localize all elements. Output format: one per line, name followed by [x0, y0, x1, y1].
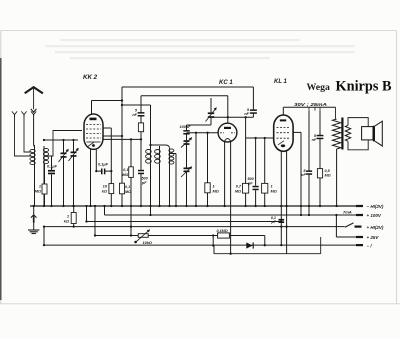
svg-text:0,1: 0,1: [123, 168, 128, 172]
svg-text:0,7: 0,7: [236, 185, 242, 189]
svg-text:MΩ: MΩ: [325, 174, 331, 178]
svg-text:MΩ: MΩ: [125, 190, 131, 194]
svg-text:nF: nF: [301, 173, 306, 177]
svg-text:μF: μF: [271, 220, 277, 224]
svg-text:− /: − /: [367, 243, 373, 248]
svg-text:0,1MΩ: 0,1MΩ: [217, 229, 228, 233]
svg-text:Knirps B: Knirps B: [336, 77, 392, 94]
svg-text:Wega: Wega: [307, 82, 331, 93]
svg-text:KK 2: KK 2: [83, 74, 98, 81]
svg-text:100pF: 100pF: [180, 125, 192, 129]
svg-text:7mA: 7mA: [343, 210, 352, 215]
svg-text:kΩ: kΩ: [102, 189, 107, 194]
svg-text:pF: pF: [247, 181, 253, 185]
svg-text:+ HI(2V): + HI(2V): [367, 225, 384, 230]
svg-text:− HI(2V): − HI(2V): [367, 204, 384, 209]
svg-text:10kΩ: 10kΩ: [143, 241, 152, 245]
svg-text:MΩ: MΩ: [235, 189, 241, 193]
svg-text:+ 25V: + 25V: [367, 235, 380, 240]
svg-text:MΩ: MΩ: [122, 173, 128, 177]
svg-text:30V ; 25mA: 30V ; 25mA: [294, 102, 327, 107]
svg-text:nF: nF: [312, 138, 317, 142]
svg-text:KL 1: KL 1: [274, 79, 288, 85]
svg-text:0,5: 0,5: [325, 169, 331, 173]
svg-text:nF: nF: [244, 112, 249, 116]
svg-text:nF: nF: [132, 113, 137, 117]
svg-text:+ 100V: + 100V: [367, 213, 382, 218]
svg-text:KC 1: KC 1: [219, 80, 233, 86]
svg-text:0,1µF: 0,1µF: [98, 162, 109, 167]
svg-text:0,1µF: 0,1µF: [47, 164, 58, 169]
svg-text:pF: pF: [141, 181, 147, 185]
svg-text:0,1: 0,1: [125, 185, 130, 189]
svg-text:kΩ: kΩ: [64, 219, 69, 224]
svg-text:MΩ: MΩ: [213, 189, 219, 194]
svg-text:MΩ: MΩ: [35, 189, 41, 194]
svg-text:MΩ: MΩ: [271, 188, 277, 193]
